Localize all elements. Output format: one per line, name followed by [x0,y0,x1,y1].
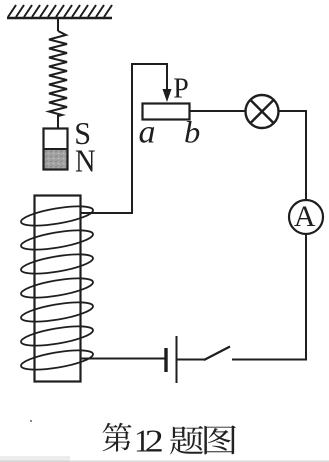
bottom scan smudge [0,461,329,462]
coil turn 4 [20,274,95,301]
svg-text:A: A [294,200,316,233]
coil turn 1 [20,202,95,229]
ammeter A [289,200,323,234]
battery positive plate (long) [176,336,178,383]
svg-text:N: N [75,143,96,179]
svg-text:P: P [173,74,189,105]
battery negative plate (short) [164,348,167,372]
speck [30,420,32,422]
magnet N pole (gray) [44,149,67,170]
wire ammeter to bottom corner [232,234,306,360]
spring hanger wire [57,18,59,31]
ceiling [7,17,112,19]
wire rheostat to lamp [190,110,246,112]
wire lamp to ammeter [279,111,307,200]
magnet hanger wire [57,115,59,129]
coil turn 5 [20,298,95,325]
spring [49,31,67,116]
svg-text:2: 2 [145,423,164,459]
magnet pole divider [44,148,68,150]
rheostat body [143,104,190,120]
coil turn 6 [20,322,95,349]
coil turn 2 [20,226,95,253]
magnet body [44,129,68,170]
coil turn 7 [20,346,95,373]
lamp L [246,95,279,128]
coil body [35,196,81,382]
svg-text:a: a [139,115,156,151]
svg-text:b: b [184,115,200,150]
wire coil bottom to battery [81,358,165,360]
wire coil top to left riser [81,64,168,213]
switch S1 [204,347,230,361]
slider arrowhead [163,89,172,102]
coil turn 3 [20,250,95,277]
ceiling hatching [8,5,112,17]
wire battery to switch [177,359,205,361]
